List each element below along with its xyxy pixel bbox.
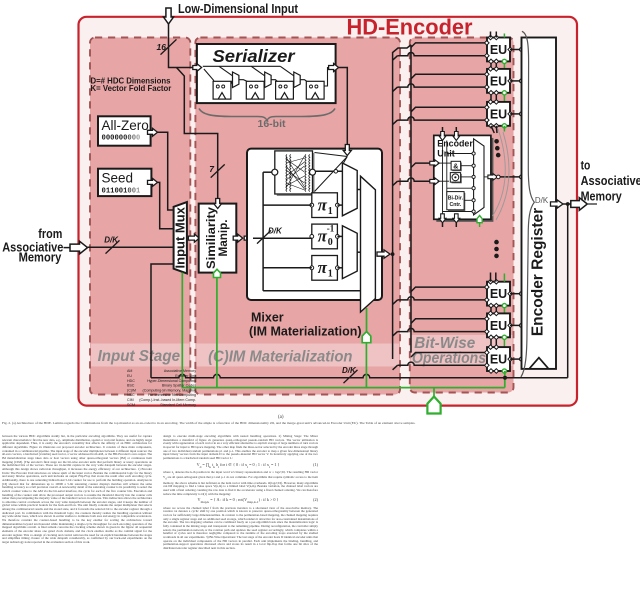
input mux output arrow <box>188 234 199 242</box>
encoder unit EU6 <box>485 345 513 374</box>
input arrow from Associative Memory <box>64 241 88 254</box>
svg-text:Standard Cell Memory: Standard Cell Memory <box>160 403 196 407</box>
svg-text:HD-Encoder: HD-Encoder <box>347 15 473 40</box>
register output label D/K <box>535 196 549 205</box>
svg-text:SCM: SCM <box>127 403 135 407</box>
permutation network block <box>272 151 316 196</box>
block Similarity Manip <box>199 204 237 273</box>
flip-flop FF4 <box>306 81 324 99</box>
svg-text:Memory: Memory <box>19 250 62 265</box>
All-Zero output arrow <box>148 128 158 136</box>
mixer mux M2 (bottom) <box>342 226 357 279</box>
block Encoder Register <box>522 38 557 369</box>
feedback wire (output to Input Mux) <box>567 204 569 378</box>
mixer input fan wires <box>315 153 348 192</box>
junction feedback EU clock <box>503 376 507 380</box>
mixer clock arrow (green) <box>362 332 371 343</box>
svg-text:NSC: NSC <box>127 393 135 397</box>
region Bit-Wise Operation (dashed) <box>410 38 514 393</box>
EU input feed wires <box>393 43 485 370</box>
encoder unit EU3 <box>485 100 513 129</box>
vertical bus right <box>410 45 412 353</box>
svg-text:-1: -1 <box>327 224 335 234</box>
svg-text:Cntr.: Cntr. <box>449 202 461 208</box>
svg-text:Mixer: Mixer <box>251 311 284 325</box>
svg-text:Serializer: Serializer <box>213 46 296 66</box>
serializer mux M3 <box>294 72 300 88</box>
Seed output arrow <box>148 178 158 186</box>
label Bit-Wise Operations <box>412 335 486 367</box>
label Encoder Register <box>530 208 547 336</box>
green clock branch Similarity Manip <box>216 278 218 388</box>
junction mixer output <box>391 252 395 256</box>
label (C)IM Materialization <box>208 349 352 366</box>
svg-text:(IM Materialization): (IM Materialization) <box>249 325 362 339</box>
svg-text:BSC: BSC <box>127 384 135 388</box>
callout lines EU detail <box>493 129 510 220</box>
mixer mux M1 (top) <box>342 163 357 216</box>
Similarity Manip top input arrow <box>214 199 222 209</box>
block Serializer <box>197 44 336 103</box>
svg-text:For Immersive Net Computing: For Immersive Net Computing <box>148 393 196 397</box>
mixer wires to muxes <box>316 170 361 268</box>
wire All-Zero to Input Mux <box>158 132 175 210</box>
green clock input wire <box>433 388 435 398</box>
svg-text:(Computing-)In Memory, Mapping: (Computing-)In Memory, Mapping <box>143 388 196 392</box>
wires ellipsis to EU4 <box>491 273 505 282</box>
ellipsis dots lower <box>494 240 499 258</box>
svg-text:D/K: D/K <box>268 227 283 236</box>
label to Associative Memory <box>581 158 640 204</box>
pi block P1 (top) <box>310 193 339 218</box>
wire Serializer to Mixer <box>339 68 348 147</box>
svg-text:HDC: HDC <box>127 379 135 383</box>
svg-text:D/K: D/K <box>104 236 119 245</box>
svg-text:D/K: D/K <box>342 366 357 375</box>
svg-text:16-bit: 16-bit <box>257 118 286 130</box>
label 16-bit <box>257 118 286 130</box>
wire Encoder Unit to register <box>497 175 524 179</box>
encoder unit EU5 <box>485 311 513 340</box>
flip-flop FF2 <box>246 81 264 99</box>
svg-text:Associative: Associative <box>581 173 640 188</box>
encoder unit EU4 <box>485 279 513 308</box>
Encoder Unit output arrow <box>488 174 498 181</box>
bus width D/K marker (mixer) <box>257 227 283 244</box>
input mux (block) <box>174 202 187 273</box>
label Input Stage <box>98 348 181 365</box>
svg-text:CIM: CIM <box>127 398 134 402</box>
serializer mux M1 <box>233 72 239 88</box>
svg-text:Encoder Register: Encoder Register <box>530 208 547 336</box>
Encoder Unit bottom output arrows <box>439 214 460 227</box>
svg-text:EU: EU <box>490 319 507 333</box>
pi block P1 (bottom) <box>310 256 339 281</box>
svg-text:to: to <box>581 158 591 173</box>
pi block P0 inverse (middle) <box>310 224 339 249</box>
block Mixer (IM Materialization) <box>247 149 382 300</box>
legend abbreviation list <box>127 369 196 407</box>
svg-text:Binary Spatter Codes: Binary Spatter Codes <box>162 384 196 388</box>
register clock triangle <box>530 358 549 369</box>
wire low-dim input to Serializer <box>169 24 193 68</box>
vertical bus left <box>393 45 411 254</box>
wires above EU1 <box>491 32 505 38</box>
svg-text:Manip.: Manip. <box>218 220 230 257</box>
bus width 7 marker <box>209 164 224 178</box>
Encoder Unit clock arrow (green) <box>477 216 482 228</box>
svg-text:EU: EU <box>490 107 507 121</box>
EU3 output wire <box>510 112 524 116</box>
EU4 output wire <box>510 292 524 296</box>
encoder unit EU1 <box>485 35 513 64</box>
block All-Zero <box>98 116 151 145</box>
black feedback bus <box>151 264 568 378</box>
encoder unit EU2 <box>485 67 513 96</box>
stage label band <box>91 335 513 367</box>
brace 16-bit <box>199 109 335 121</box>
label from Associative Memory <box>2 226 63 265</box>
input arrow Low-Dimensional Input <box>164 8 174 24</box>
mixer output arrow <box>377 250 390 258</box>
note HDC dimensions <box>91 77 172 93</box>
ellipsis dots upper <box>494 139 500 157</box>
mixer internal bus <box>263 172 361 291</box>
svg-text:(C)IM Materialization: (C)IM Materialization <box>208 349 352 366</box>
svg-text:Associative Memory: Associative Memory <box>164 369 196 373</box>
svg-text:(C)IM: (C)IM <box>127 388 136 392</box>
Encoder Unit left input arrows <box>430 160 440 185</box>
label Encoder Unit <box>437 139 473 159</box>
chain wires below EU1 <box>491 61 504 69</box>
serializer mux M2 <box>265 72 271 88</box>
chain wires below EU5 <box>491 337 504 347</box>
svg-text:All-Zero: All-Zero <box>102 118 149 133</box>
svg-text:Hyper-Dimensional Computing: Hyper-Dimensional Computing <box>147 379 196 383</box>
svg-text:EU: EU <box>127 374 132 378</box>
EU2 output wire <box>510 79 524 83</box>
flip-flop FF3 <box>276 81 294 99</box>
svg-text:(Comp.)-Inst.-based In-Mem Com: (Comp.)-Inst.-based In-Mem Comp. <box>139 398 196 402</box>
Encoder Unit feed wires <box>393 163 430 186</box>
Similarity Manip output arrows <box>233 234 254 242</box>
svg-text:1: 1 <box>328 206 333 217</box>
register gathering brace <box>521 31 534 377</box>
Encoder Unit internals <box>438 139 488 215</box>
bus width D/K marker (AM input) <box>104 236 119 254</box>
serializer output wire internal <box>324 68 330 87</box>
serializer stage link wires <box>231 80 307 85</box>
mixer clock wire (green) <box>366 308 368 332</box>
svg-text:EU: EU <box>490 287 507 301</box>
flip-flop FF1 <box>213 81 231 99</box>
serializer output arrow <box>329 64 339 72</box>
svg-text:D/K: D/K <box>535 196 549 205</box>
label Mixer <box>249 311 362 339</box>
wires EU3 to ellipsis <box>491 126 504 133</box>
mixer input arrow <box>253 237 312 239</box>
EU5 output wire <box>510 323 524 327</box>
svg-text:16: 16 <box>157 42 167 52</box>
serializer input arrow <box>193 64 202 72</box>
svg-text:Bi-Dir.: Bi-Dir. <box>448 196 464 202</box>
vertical bus left lower <box>392 254 394 359</box>
bus width 16 marker <box>157 39 177 54</box>
svg-text:&: & <box>453 164 458 171</box>
mixer top input arrow <box>343 145 351 156</box>
EU1 output wire <box>510 48 524 52</box>
block Encoder Unit (detail) <box>434 135 494 221</box>
region Input Stage (dashed) <box>90 38 190 395</box>
serializer input rail <box>203 66 294 81</box>
register output arrow <box>551 200 564 208</box>
svg-text:Encoder: Encoder <box>437 139 473 149</box>
HD-Encoder title <box>344 15 474 40</box>
Encoder Unit top input arrows <box>439 127 460 141</box>
HD-Encoder output arrow <box>571 198 597 211</box>
HD-Encoder top-level block (outer box) <box>79 17 578 406</box>
svg-text:Low-Dimensional Input: Low-Dimensional Input <box>178 1 299 16</box>
svg-text:EU: EU <box>490 353 507 367</box>
bus width D/K marker (feedback) <box>342 366 358 383</box>
svg-text:EU: EU <box>490 43 507 57</box>
block Seed <box>98 169 151 196</box>
green clock bus <box>182 273 505 388</box>
region (C)IM Materialization (dashed) <box>195 38 400 395</box>
svg-text:K= Vector Fold Factor: K= Vector Fold Factor <box>91 84 172 93</box>
svg-text:Seed: Seed <box>102 170 134 185</box>
wire Seed to Input Mux <box>158 182 175 228</box>
svg-text:AM: AM <box>127 369 132 373</box>
clock input arrow (green) <box>427 397 440 414</box>
svg-text:Similiarity: Similiarity <box>206 206 218 269</box>
svg-text:EU: EU <box>490 74 507 88</box>
svg-text:Unit: Unit <box>437 149 455 159</box>
svg-text:Encoder Unit: Encoder Unit <box>175 374 196 378</box>
svg-text:Input Mux: Input Mux <box>173 206 188 268</box>
output junction <box>563 202 572 206</box>
svg-text:π: π <box>318 258 328 277</box>
svg-text:0: 0 <box>328 237 333 248</box>
svg-text:1: 1 <box>328 269 333 280</box>
EU6 output wire <box>510 357 524 361</box>
Similarity Manip clock arrow (green) <box>214 269 221 277</box>
label Serializer <box>213 46 296 66</box>
chain wires below EU2 <box>491 93 504 102</box>
mixer output mux (tall) <box>361 176 376 312</box>
svg-text:Input Stage: Input Stage <box>98 348 181 365</box>
label Similiarity Manip <box>206 206 230 269</box>
label Low-Dimensional Input <box>178 1 299 16</box>
wire AM to Input Mux <box>88 246 175 248</box>
wire branch to Similarity Manip (7-bit) <box>177 68 218 200</box>
green clock branch Mixer <box>365 343 367 388</box>
svg-text:Memory: Memory <box>581 189 623 204</box>
wire EU6 clock to green bus <box>504 371 506 388</box>
svg-text:π: π <box>318 195 328 214</box>
label Input Mux <box>173 206 188 268</box>
chain wires below EU4 <box>491 306 504 314</box>
